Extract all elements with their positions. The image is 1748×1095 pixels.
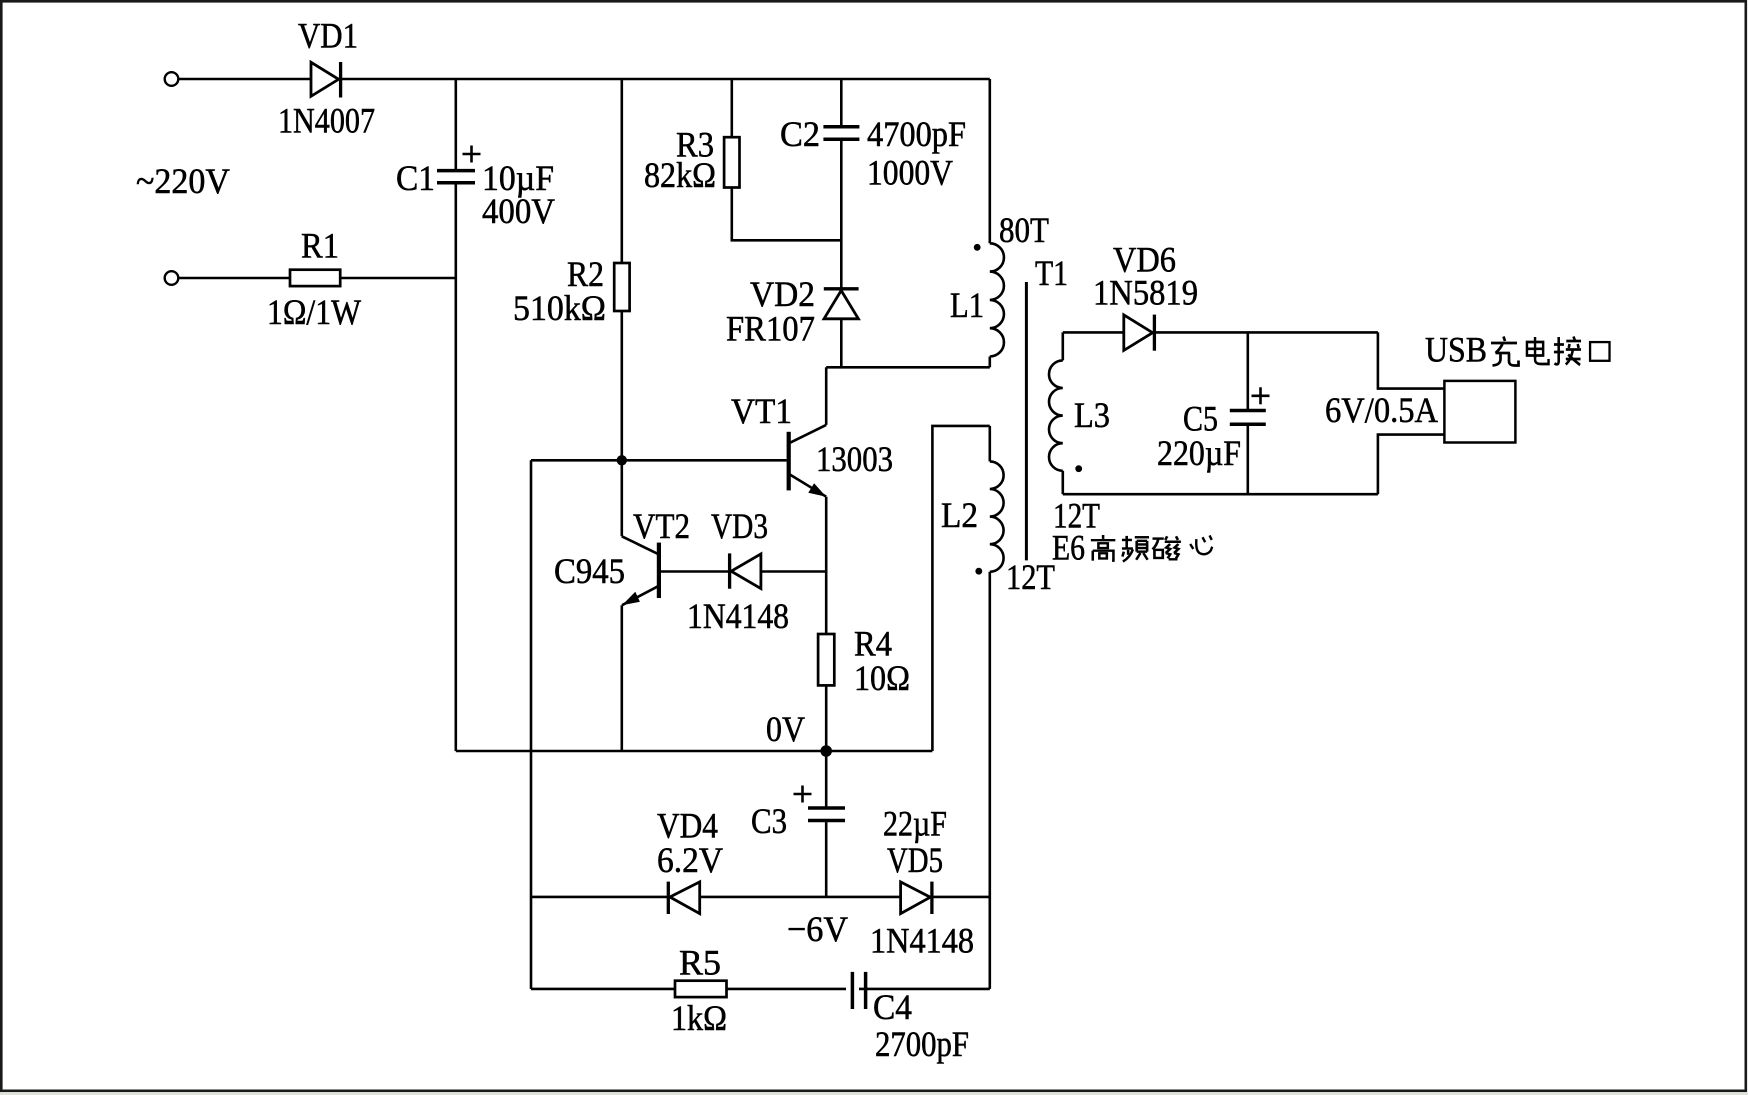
inductor L1 (990, 79, 1004, 367)
svg-text:22µF: 22µF (883, 804, 947, 844)
plus sign C5 (1252, 387, 1270, 404)
svg-text:400V: 400V (482, 191, 555, 231)
terminal input top (165, 72, 179, 86)
wire R1 left (178, 277, 290, 280)
transformer core T1 (1025, 282, 1028, 560)
svg-text:C2: C2 (780, 114, 820, 154)
node L3 dot (1075, 465, 1082, 472)
svg-text:80T: 80T (999, 210, 1049, 250)
svg-text:12T: 12T (1006, 557, 1055, 597)
svg-text:R1: R1 (301, 226, 339, 266)
svg-text:1N5819: 1N5819 (1093, 273, 1198, 313)
svg-text:1kΩ: 1kΩ (671, 998, 727, 1038)
svg-text:USB: USB (1425, 330, 1487, 370)
wire L1 bottom rail (826, 366, 990, 369)
resistor R1 (290, 270, 340, 286)
char pin (1122, 536, 1149, 562)
svg-text:FR107: FR107 (726, 309, 815, 349)
USB connector box (1444, 381, 1515, 443)
svg-text:L1: L1 (950, 285, 984, 325)
svg-text:C945: C945 (554, 551, 625, 591)
wire 0V rail (456, 750, 933, 753)
svg-text:−6V: −6V (787, 909, 848, 949)
wire R3 branch top (730, 79, 733, 137)
wire output right leg (1378, 332, 1445, 388)
svg-text:1N4007: 1N4007 (278, 101, 375, 141)
svg-text:10Ω: 10Ω (854, 658, 910, 698)
node C1 top branch (454, 79, 457, 169)
wire bottom rail R5 C4 (531, 988, 990, 991)
wire VD2 to collector rail (840, 319, 843, 368)
capacitor C4 (846, 972, 866, 1009)
svg-text:1N4148: 1N4148 (870, 921, 974, 961)
char gao (1091, 535, 1115, 561)
plus sign C3 (794, 786, 812, 803)
svg-text:1Ω/1W: 1Ω/1W (267, 292, 361, 332)
wire C2 branch top (840, 79, 843, 126)
svg-text:6V/0.5A: 6V/0.5A (1325, 390, 1438, 430)
transistor VT1 (787, 367, 827, 634)
terminal input bottom (165, 271, 179, 285)
resistor R2 (614, 263, 629, 311)
node L2 dot (975, 568, 982, 575)
wire R4 bottom (825, 685, 828, 751)
char kou (1590, 342, 1609, 361)
svg-text:VD1: VD1 (298, 16, 358, 56)
svg-text:1N4148: 1N4148 (687, 596, 789, 636)
char xin (1190, 535, 1212, 554)
node 0V junction (820, 745, 832, 757)
wire top rail (178, 78, 311, 81)
svg-text:C1: C1 (396, 158, 435, 198)
wire R3 bottom (732, 188, 842, 241)
wire C3 top (825, 751, 828, 807)
char jie (1554, 337, 1581, 366)
wire output lower leg (1378, 435, 1445, 495)
svg-text:VT2: VT2 (633, 506, 690, 546)
wire top rail right of VD1 (339, 78, 990, 81)
wire VT1 base rail (531, 459, 787, 462)
svg-text:E6: E6 (1052, 528, 1085, 568)
wire VD3 rail (661, 570, 826, 573)
wire R1 right (340, 277, 456, 280)
wire L2 left branch (932, 426, 989, 751)
svg-text:L2: L2 (941, 495, 978, 535)
wire C2 to VD2 (840, 141, 843, 288)
capacitor C2 (823, 127, 859, 140)
svg-text:R5: R5 (679, 943, 721, 983)
diode VD3 (730, 553, 761, 588)
capacitor C5 (1230, 332, 1266, 494)
svg-text:C4: C4 (873, 987, 912, 1027)
svg-text:VD5: VD5 (887, 840, 943, 880)
resistor R3 (724, 137, 739, 187)
svg-text:2700pF: 2700pF (875, 1024, 969, 1064)
bottom gray strip (0, 1092, 1748, 1095)
svg-text:4700pF: 4700pF (867, 114, 966, 154)
svg-text:6.2V: 6.2V (657, 840, 723, 880)
diode VD2 (824, 289, 859, 319)
wire VD4 VD5 rail (531, 896, 990, 899)
svg-text:L3: L3 (1074, 395, 1110, 435)
diode VD1 (311, 62, 341, 98)
svg-text:~220V: ~220V (136, 161, 230, 201)
wire R2 branch top (620, 79, 623, 263)
plus sign C1 (463, 146, 481, 163)
diode VD4 (668, 882, 699, 914)
wire left loop vertical (530, 460, 533, 989)
svg-text:82kΩ: 82kΩ (644, 155, 716, 195)
char ci (1152, 536, 1180, 559)
svg-text:VT1: VT1 (731, 391, 792, 431)
inductor L2 (990, 426, 1004, 989)
svg-text:1000V: 1000V (867, 153, 953, 193)
wire L3 top rail (1063, 331, 1378, 334)
char dian (1527, 337, 1549, 364)
transistor VT2 (622, 536, 661, 751)
diode VD5 (901, 882, 932, 914)
svg-text:VD3: VD3 (711, 506, 768, 546)
char chong (1491, 337, 1519, 366)
wire R2 to VT2 collector (620, 311, 623, 536)
svg-text:T1: T1 (1035, 253, 1068, 293)
diode VD6 (1124, 315, 1155, 351)
capacitor C3 (808, 808, 845, 897)
resistor R5 (675, 981, 727, 997)
node L1 dot (974, 244, 981, 251)
svg-text:13003: 13003 (816, 439, 893, 479)
capacitor C1 (437, 171, 475, 751)
resistor R4 (818, 634, 834, 685)
svg-text:0V: 0V (766, 709, 805, 749)
inductor L3 (1049, 332, 1063, 494)
wire L3 bottom rail (1063, 493, 1378, 496)
svg-text:510kΩ: 510kΩ (513, 288, 606, 328)
svg-text:C3: C3 (751, 801, 787, 841)
svg-text:220µF: 220µF (1157, 433, 1241, 473)
node junction base drive (617, 455, 627, 465)
